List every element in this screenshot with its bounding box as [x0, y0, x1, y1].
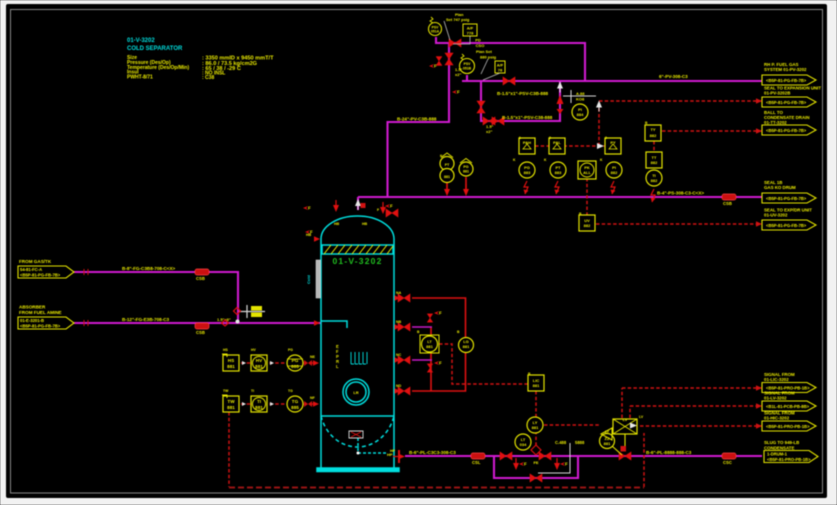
svg-text:CSO: CSO [476, 43, 485, 48]
svg-text:78: 78 [498, 68, 503, 73]
svg-text:x2": x2" [486, 129, 492, 134]
svg-text:HB: HB [306, 233, 312, 237]
svg-text:LR: LR [353, 390, 358, 395]
svg-text:B-8"-FG-C3B8-708-C<X>: B-8"-FG-C3B8-708-C<X> [122, 266, 176, 271]
svg-text:TG: TG [292, 399, 299, 404]
svg-text:ZF: ZF [605, 430, 609, 434]
svg-text:HV: HV [256, 358, 263, 363]
svg-text:881: 881 [463, 170, 469, 174]
svg-text:884: 884 [577, 112, 584, 117]
svg-text:<B5P-81-PG-FB-7B>: <B5P-81-PG-FB-7B> [766, 196, 807, 201]
svg-text:Cold: Cold [306, 275, 311, 284]
svg-text:FE: FE [533, 460, 538, 465]
svg-text:B-4"-PS-308-C3-C<X>: B-4"-PS-308-C3-C<X> [657, 191, 704, 196]
svg-text:TI: TI [257, 399, 261, 404]
svg-text:L: L [336, 364, 339, 369]
svg-text:ABSORBER: ABSORBER [19, 305, 46, 310]
svg-text:<B1L-81-PCB-PB-8B>: <B1L-81-PCB-PB-8B> [766, 404, 810, 409]
svg-text:B-24"-PV-C3B-888: B-24"-PV-C3B-888 [397, 117, 437, 122]
svg-text:PWHT-8/71: PWHT-8/71 [127, 75, 153, 81]
svg-text:HB: HB [334, 222, 340, 226]
svg-text:PT: PT [445, 163, 450, 167]
svg-text:<B5P-81-PG-FB-7B>: <B5P-81-PG-FB-7B> [766, 78, 807, 83]
svg-text:881: 881 [255, 364, 263, 369]
svg-text:881: 881 [532, 425, 539, 430]
svg-text:882: 882 [651, 160, 658, 165]
svg-text:HV: HV [251, 348, 256, 352]
svg-text:881: 881 [227, 405, 235, 410]
svg-text:x2": x2" [455, 72, 461, 77]
svg-text:B-6"-PL-C3C3-308-C3: B-6"-PL-C3C3-308-C3 [409, 450, 456, 455]
svg-text:TY: TY [650, 127, 655, 132]
svg-text:778: 778 [467, 31, 474, 36]
svg-text:PG: PG [463, 165, 468, 169]
svg-text:<B5P-81-PG-FB-7B>: <B5P-81-PG-FB-7B> [766, 223, 807, 228]
svg-text:<B5P-81-PG-FB-7B>: <B5P-81-PG-FB-7B> [766, 100, 807, 105]
svg-text:882: 882 [650, 133, 657, 138]
svg-text:01-PV-3202B: 01-PV-3202B [764, 91, 790, 96]
svg-text:881: 881 [426, 344, 433, 349]
svg-text:B-12"-FG-E3B-708-C3: B-12"-FG-E3B-708-C3 [122, 317, 170, 322]
svg-text:Plan Set: Plan Set [476, 49, 492, 54]
svg-text:01-TT-3202: 01-TT-3202 [764, 120, 787, 125]
svg-text:881: 881 [227, 364, 235, 369]
svg-text:2: 2 [549, 136, 551, 140]
svg-text:1: 1 [519, 136, 521, 140]
svg-text:CSL: CSL [472, 460, 481, 465]
svg-text:HP: HP [390, 449, 396, 453]
svg-text:FROM GAS/TK: FROM GAS/TK [19, 259, 52, 264]
svg-text:TW: TW [227, 399, 235, 404]
svg-text:CSB: CSB [723, 201, 732, 206]
svg-text:051B: 051B [463, 67, 472, 71]
svg-text:034: 034 [520, 442, 527, 447]
svg-text:ND: ND [396, 384, 402, 388]
svg-text:PD: PD [475, 38, 481, 43]
svg-text:A.88: A.88 [576, 91, 585, 96]
svg-text:<B5P-81-PG-FB-7B>: <B5P-81-PG-FB-7B> [20, 273, 61, 278]
svg-text:NC: NC [396, 353, 402, 357]
svg-text:882: 882 [584, 223, 591, 228]
svg-text:HS: HS [223, 348, 228, 352]
svg-text:<B5P-81-PG-FB-7B>: <B5P-81-PG-FB-7B> [766, 128, 807, 133]
svg-text:ALL: ALL [583, 170, 591, 175]
svg-text:B-1.5"x1"-PSV-C38-888: B-1.5"x1"-PSV-C38-888 [502, 115, 553, 120]
svg-text:01-LV-3202: 01-LV-3202 [764, 396, 787, 401]
svg-text:TI: TI [251, 389, 254, 393]
svg-text:<B5P-81-PG-FB-7B>: <B5P-81-PG-FB-7B> [20, 324, 61, 329]
svg-text:01-HIC-3202: 01-HIC-3202 [764, 416, 790, 421]
svg-text:PSV: PSV [464, 62, 472, 66]
svg-text:54-81-FC-A: 54-81-FC-A [20, 267, 42, 272]
svg-text:: C38: : C38 [202, 75, 214, 81]
svg-text:GAS KO DRUM: GAS KO DRUM [764, 185, 796, 190]
svg-text:NE: NE [310, 355, 316, 359]
svg-text:SYSTEM 01-PV-3202: SYSTEM 01-PV-3202 [764, 67, 807, 72]
svg-text:883: 883 [524, 170, 531, 175]
svg-text:CSC: CSC [723, 460, 732, 465]
svg-text:881: 881 [463, 344, 470, 349]
svg-text:NB: NB [396, 320, 402, 324]
svg-text:881: 881 [604, 441, 611, 446]
svg-text:880 psig: 880 psig [480, 55, 497, 60]
svg-text:HS: HS [228, 358, 234, 363]
svg-text:CONDENSATE: CONDENSATE [764, 446, 794, 451]
svg-text:COLD SEPARATOR: COLD SEPARATOR [127, 46, 183, 52]
svg-text:882: 882 [651, 178, 658, 183]
svg-text:LV: LV [623, 417, 628, 422]
svg-text:B-6"-PL-8888-888-C3: B-6"-PL-8888-888-C3 [646, 450, 692, 455]
svg-text:TG: TG [288, 389, 293, 393]
svg-text:881: 881 [255, 405, 263, 410]
svg-text:051A: 051A [431, 30, 440, 34]
svg-text:885: 885 [291, 364, 299, 369]
svg-text:01-V-3202: 01-V-3202 [332, 256, 382, 266]
svg-text:882: 882 [611, 170, 618, 175]
svg-text:KO8: KO8 [576, 97, 585, 102]
svg-text:NA: NA [396, 291, 402, 295]
svg-text:CSB: CSB [196, 276, 205, 281]
svg-text:1-DRUM-1: 1-DRUM-1 [767, 452, 788, 457]
svg-text:6"-PV-308-C3: 6"-PV-308-C3 [659, 74, 688, 79]
svg-text:SLUG TO 949-LB: SLUG TO 949-LB [764, 440, 799, 445]
svg-text:01-LIC-3202: 01-LIC-3202 [764, 377, 789, 382]
svg-text:<B5P-81-PRO-PB-1B>: <B5P-81-PRO-PB-1B> [767, 457, 811, 462]
svg-text:883: 883 [555, 170, 562, 175]
svg-text:885: 885 [291, 405, 299, 410]
svg-text:3: 3 [605, 136, 607, 140]
svg-text:C.488: C.488 [555, 440, 567, 445]
svg-text:881: 881 [533, 383, 540, 388]
svg-text:FROM FUEL AMINE: FROM FUEL AMINE [19, 310, 62, 315]
svg-text:TW: TW [223, 389, 229, 393]
svg-text:01-V-3202: 01-V-3202 [127, 38, 155, 44]
svg-text:881: 881 [444, 175, 450, 179]
svg-text:PG: PG [288, 348, 293, 352]
svg-text:HB: HB [362, 222, 368, 226]
svg-text:Set 747 psig: Set 747 psig [446, 17, 470, 22]
svg-text:NF: NF [310, 396, 316, 400]
svg-text:01-UV-3202: 01-UV-3202 [764, 213, 788, 218]
svg-text:<B5P-81-PRO-PB-1B>: <B5P-81-PRO-PB-1B> [766, 424, 810, 429]
svg-text:5888: 5888 [575, 440, 585, 445]
svg-text:01-E-3201-B: 01-E-3201-B [20, 318, 44, 323]
svg-text:CSB: CSB [196, 330, 205, 335]
svg-text:B-1.5"x1"-PSV-C3B-888: B-1.5"x1"-PSV-C3B-888 [497, 91, 549, 96]
